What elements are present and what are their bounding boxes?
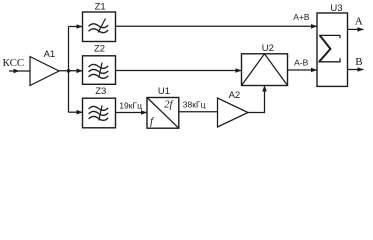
summator U3 xyxy=(317,3,348,87)
wire A1 output to Z2 xyxy=(59,69,83,74)
amplifier A1 xyxy=(30,49,59,85)
svg-text:19кГц: 19кГц xyxy=(119,100,142,110)
frequency doubler U1 xyxy=(147,86,179,128)
svg-text:B: B xyxy=(355,56,362,68)
svg-text:A+B: A+B xyxy=(293,12,310,22)
wire U2 to U3 net A-B xyxy=(288,57,318,72)
amplifier A2 xyxy=(218,90,249,127)
wire branch vertical xyxy=(68,27,70,113)
wire Z2 to U2 xyxy=(116,68,242,73)
wire A2 to U2 bottom xyxy=(248,86,267,113)
wire branch to Z1 xyxy=(69,24,83,29)
filter Z3 xyxy=(83,86,116,128)
output A xyxy=(348,15,364,31)
output B xyxy=(348,56,364,72)
filter Z2 xyxy=(83,44,116,85)
svg-text:A1: A1 xyxy=(44,49,56,60)
demodulator U2 xyxy=(242,43,288,86)
wire U1 to A2 net 38кГц xyxy=(179,100,218,112)
svg-text:Z1: Z1 xyxy=(95,2,106,13)
svg-text:U2: U2 xyxy=(262,43,274,54)
wire branch to Z3 xyxy=(69,110,83,115)
wire Z1 to U3 net A+B xyxy=(116,12,318,29)
node junction xyxy=(67,69,71,73)
svg-text:A2: A2 xyxy=(229,90,241,101)
svg-text:U1: U1 xyxy=(158,86,170,97)
filter Z1 xyxy=(83,2,116,42)
svg-text:КСС: КСС xyxy=(3,57,25,69)
svg-text:A-B: A-B xyxy=(294,57,309,67)
svg-text:Z3: Z3 xyxy=(95,86,106,97)
wire Z3 to U1 net 19кГц xyxy=(116,100,148,114)
input arrow КСС xyxy=(9,69,30,74)
svg-text:U3: U3 xyxy=(330,3,342,14)
svg-text:Z2: Z2 xyxy=(94,44,105,55)
svg-text:38кГц: 38кГц xyxy=(183,100,206,110)
svg-text:A: A xyxy=(355,15,363,27)
